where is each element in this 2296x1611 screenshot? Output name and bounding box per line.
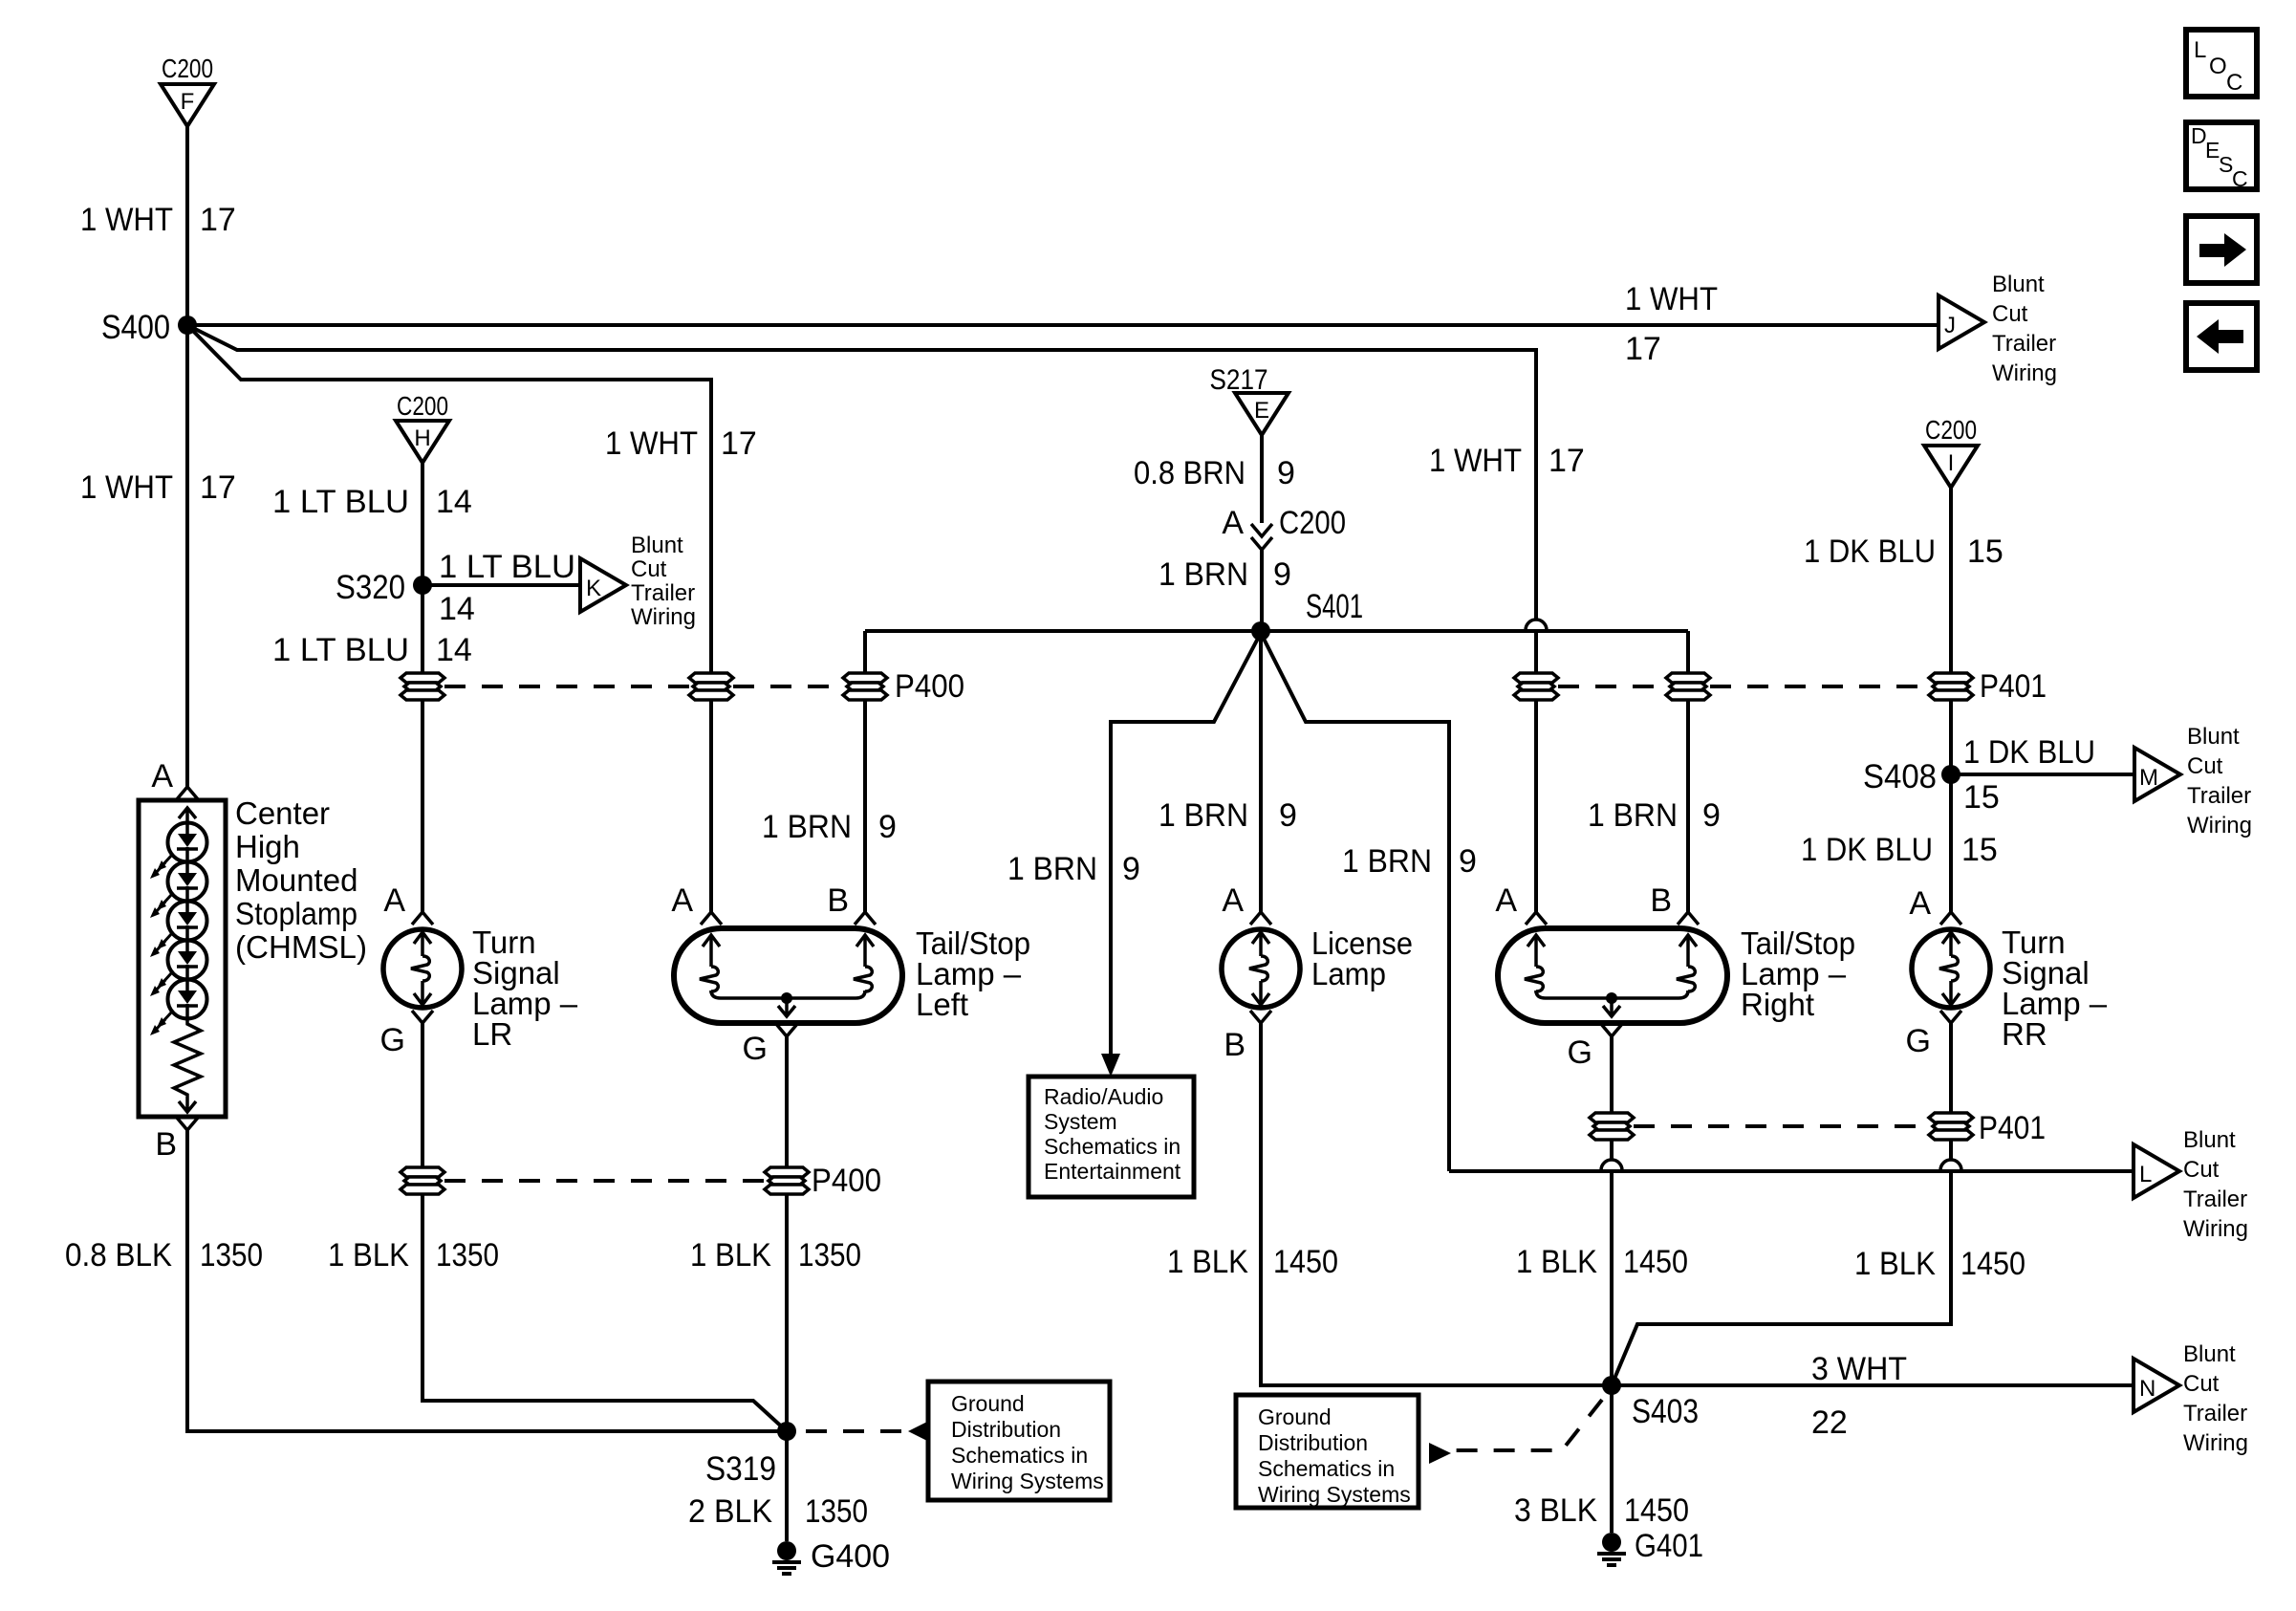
ground G400 [772, 1541, 801, 1574]
dashed harness line P401 top [1558, 685, 1927, 688]
svg-text:1 BRN: 1 BRN [1342, 843, 1432, 880]
svg-text:S400: S400 [101, 309, 170, 346]
wire 1 WHT resumes to connector [1534, 632, 1538, 673]
label 1 BLK 1350 (x442) [328, 1237, 499, 1274]
svg-text:1450: 1450 [1273, 1244, 1338, 1280]
triangle K blunt cut [580, 558, 626, 612]
svg-text:S408: S408 [1863, 758, 1937, 795]
text blunt cut trailer wiring (K) [631, 533, 696, 630]
svg-text:I: I [1948, 450, 1955, 476]
svg-text:17: 17 [1549, 443, 1585, 479]
svg-text:1 DK BLU: 1 DK BLU [1804, 533, 1936, 570]
svg-text:1450: 1450 [1624, 1492, 1689, 1529]
svg-text:C: C [2232, 166, 2248, 191]
pin chevron turn LR A [412, 912, 433, 925]
svg-text:1 DK BLU: 1 DK BLU [1801, 832, 1933, 868]
C200 pass-through marker A [1251, 524, 1272, 550]
CHMSL box [139, 800, 226, 1117]
svg-text:17: 17 [200, 469, 236, 506]
pin chevron turn RR G [1940, 1011, 1961, 1023]
ground distribution box (left) [928, 1382, 1110, 1500]
svg-text:15: 15 [1963, 779, 2000, 816]
svg-text:Wiring: Wiring [1992, 360, 2057, 386]
svg-text:S401: S401 [1306, 588, 1363, 625]
wire S400 down to CHMSL [185, 325, 189, 787]
pin chevron tail right B [1678, 912, 1699, 925]
wire turn LR ground to S319 [422, 1194, 787, 1431]
svg-text:P400: P400 [895, 668, 964, 705]
svg-text:Cut: Cut [631, 556, 667, 582]
svg-text:LR: LR [472, 1016, 512, 1052]
svg-text:17: 17 [721, 425, 757, 462]
svg-text:Schematics in: Schematics in [1258, 1456, 1395, 1481]
svg-text:Schematics in: Schematics in [951, 1443, 1088, 1468]
wire tail left G down [785, 1036, 789, 1167]
svg-text:G400: G400 [811, 1538, 890, 1575]
svg-text:1450: 1450 [1960, 1246, 2025, 1282]
label 1 WHT 17 (x196 lower) [80, 469, 236, 506]
pin chevron tail left G [776, 1024, 797, 1036]
wire turn RR ground to S403 [1612, 1140, 1951, 1385]
wire S401 down to license lamp [1259, 631, 1263, 912]
text blunt cut trailer wiring (J) [1992, 272, 2057, 386]
svg-text:1 BLK: 1 BLK [690, 1237, 771, 1274]
wire P400 to tail left B [863, 700, 867, 912]
svg-text:9: 9 [878, 809, 897, 845]
hop of 1 WHT over 1 BRN bus [1526, 620, 1547, 630]
inline connector P401 top [1929, 673, 1973, 700]
svg-text:C200: C200 [162, 54, 213, 83]
svg-text:9: 9 [1122, 851, 1140, 887]
label 1 BLK 1450 (x1686) [1516, 1244, 1688, 1280]
svg-text:1 BRN: 1 BRN [1159, 556, 1248, 593]
wire S408 down to turn RR [1949, 774, 1953, 912]
svg-text:Radio/Audio: Radio/Audio [1044, 1084, 1163, 1109]
pin chevron CHMSL A [177, 787, 198, 799]
svg-text:1 LT BLU: 1 LT BLU [272, 484, 409, 520]
label 1 WHT 17 (to J) [1625, 281, 1718, 367]
svg-text:(CHMSL): (CHMSL) [235, 929, 367, 965]
svg-text:15: 15 [1967, 533, 2004, 570]
svg-text:C200: C200 [1925, 415, 1977, 445]
label 1 WHT 17 (x744) [605, 425, 757, 462]
CHMSL top arrow [179, 808, 196, 824]
connector triangle H [396, 421, 449, 463]
pin chevron license B [1250, 1011, 1271, 1023]
wire S401 horizontal (1 BRN bus) [865, 629, 1688, 633]
svg-text:B: B [1224, 1027, 1245, 1063]
svg-text:Cut: Cut [1992, 301, 2028, 327]
wire corner down to P400 [863, 631, 867, 673]
svg-text:Left: Left [916, 987, 968, 1022]
label 3 WHT / 22 [1811, 1351, 1907, 1441]
svg-text:Wiring: Wiring [631, 604, 696, 630]
svg-text:K: K [586, 576, 601, 601]
svg-text:2 BLK: 2 BLK [688, 1493, 772, 1530]
wire tail right G down [1610, 1036, 1614, 1113]
svg-text:1 BRN: 1 BRN [1588, 797, 1678, 834]
inline connector P400 [843, 673, 887, 700]
wire H to S320 [421, 463, 424, 585]
wire S320 branch to K [422, 583, 580, 587]
svg-text:1 WHT: 1 WHT [1625, 281, 1718, 317]
splice dot S401 [1251, 621, 1270, 641]
svg-text:9: 9 [1279, 797, 1297, 834]
label 1 BRN 9 (radio feed) [1007, 851, 1140, 887]
wire connector to tail lamp left A [709, 700, 713, 912]
wire connector to turn signal LR [421, 700, 424, 912]
svg-text:1 BRN: 1 BRN [1007, 851, 1097, 887]
svg-text:RR: RR [2002, 1016, 2047, 1052]
inline connector (right lamp A) [1514, 673, 1558, 700]
svg-text:Wiring Systems: Wiring Systems [951, 1469, 1104, 1493]
svg-text:B: B [155, 1126, 177, 1163]
label 1 DK BLU / 15 (M branch) [1963, 734, 2095, 816]
wire license B to S403 [1261, 1023, 1612, 1385]
svg-text:1 DK BLU: 1 DK BLU [1963, 734, 2095, 771]
label 1 BLK 1450 (x2041) [1854, 1246, 2025, 1282]
svg-text:Blunt: Blunt [2183, 1341, 2236, 1367]
ground distribution box (right) [1236, 1395, 1419, 1508]
svg-text:14: 14 [436, 632, 472, 668]
wire S400 branch 2 [187, 325, 1536, 620]
svg-text:9: 9 [1702, 797, 1721, 834]
text turn signal lamp RR [2002, 925, 2108, 1052]
pin chevron license A [1250, 912, 1271, 925]
text blunt cut trailer wiring (L) [2183, 1127, 2248, 1242]
CHMSL bottom arrow [179, 1099, 196, 1112]
wire E down to C200 pass-through [1260, 435, 1264, 523]
pin chevron tail right A [1526, 912, 1547, 925]
wire tail right ground to S403 [1610, 1140, 1614, 1385]
svg-text:L: L [2139, 1162, 2152, 1187]
svg-text:0.8 BRN: 0.8 BRN [1134, 455, 1245, 491]
svg-text:G: G [380, 1022, 405, 1058]
svg-text:Wiring: Wiring [2187, 813, 2252, 838]
wire S403 to G401 [1610, 1385, 1614, 1533]
wire S320 down to connector [421, 585, 424, 673]
svg-text:14: 14 [436, 484, 472, 520]
svg-text:Blunt: Blunt [2183, 1127, 2236, 1153]
text tail stop lamp left [916, 925, 1030, 1022]
label 0.8 BLK 1350 [65, 1237, 263, 1274]
svg-text:S320: S320 [336, 569, 405, 606]
svg-text:Trailer: Trailer [2183, 1186, 2247, 1212]
svg-text:Distribution: Distribution [951, 1417, 1061, 1442]
svg-text:Right: Right [1741, 987, 1814, 1022]
splice dot S408 [1941, 765, 1960, 784]
svg-text:A: A [1222, 505, 1244, 541]
svg-text:Center: Center [235, 795, 330, 831]
svg-text:0.8 BLK: 0.8 BLK [65, 1237, 172, 1274]
wire S400 to J (1 WHT) [187, 323, 1939, 327]
svg-text:1 WHT: 1 WHT [1429, 443, 1522, 479]
triangle N blunt cut [2134, 1359, 2179, 1412]
svg-text:1 WHT: 1 WHT [605, 425, 698, 462]
triangle L blunt cut [2134, 1144, 2179, 1198]
wire CHMSL B down and right to S319 [187, 1130, 787, 1431]
svg-text:9: 9 [1277, 455, 1295, 491]
svg-text:O: O [2209, 54, 2227, 79]
CHMSL LED 1 [150, 823, 207, 880]
svg-text:Cut: Cut [2183, 1157, 2220, 1183]
svg-text:S319: S319 [705, 1450, 776, 1488]
wire P401 to S408 [1949, 700, 1953, 774]
svg-text:1 BRN: 1 BRN [762, 809, 852, 845]
svg-text:9: 9 [1273, 556, 1291, 593]
label 1 BLK 1450 (license) [1167, 1244, 1338, 1280]
label 1 DK BLU 15 (below S408) [1801, 832, 1998, 868]
svg-text:14: 14 [439, 591, 475, 627]
svg-text:B: B [1650, 882, 1672, 919]
svg-text:F: F [181, 89, 195, 115]
triangle M blunt cut [2134, 748, 2180, 801]
label A C200 [1222, 505, 1346, 541]
splice dot S319 [777, 1422, 796, 1441]
text turn signal lamp LR [472, 925, 578, 1052]
wire S319 to G400 [785, 1431, 789, 1541]
dashed harness line P401 bottom [1634, 1124, 1929, 1128]
inline connector (1 WHT left) [689, 673, 733, 700]
pin chevron turn LR G [412, 1011, 433, 1023]
label 2 BLK 1350 [688, 1493, 868, 1530]
ground G401 [1597, 1533, 1626, 1565]
svg-text:1 WHT: 1 WHT [80, 202, 173, 238]
svg-text:P401: P401 [1979, 1110, 2046, 1146]
pin chevron turn RR A [1940, 912, 1961, 925]
svg-text:J: J [1944, 313, 1956, 338]
pin chevron tail left A [701, 912, 722, 925]
svg-text:1 BLK: 1 BLK [1167, 1244, 1248, 1280]
label 1 WHT 17 (x1607) [1429, 443, 1585, 479]
svg-text:1350: 1350 [436, 1237, 499, 1274]
svg-text:A: A [151, 758, 173, 795]
svg-text:Blunt: Blunt [2187, 724, 2240, 750]
svg-text:Blunt: Blunt [1992, 272, 2045, 297]
svg-text:Ground: Ground [1258, 1404, 1332, 1429]
svg-text:Stoplamp: Stoplamp [235, 896, 357, 931]
wire S403 to N (3 WHT) [1612, 1383, 2134, 1387]
triangle J blunt cut [1939, 295, 1984, 349]
connector triangle I [1924, 446, 1978, 488]
wire turn RR G down [1949, 1023, 1953, 1113]
svg-text:A: A [1222, 882, 1244, 919]
svg-text:Mounted: Mounted [235, 862, 357, 898]
text license lamp [1311, 925, 1413, 991]
label 1 BRN 9 (license) [1159, 797, 1297, 834]
svg-text:B: B [827, 882, 849, 919]
pin chevron CHMSL B [177, 1118, 198, 1130]
splice dot S400 [178, 316, 197, 335]
wire F to S400 [185, 126, 189, 325]
svg-text:Distribution: Distribution [1258, 1430, 1368, 1455]
lamp turn signal LR [383, 929, 462, 1008]
dashed reference S403 to ground box [1429, 1400, 1602, 1464]
wire C200 to S401 [1260, 550, 1264, 631]
svg-text:E: E [1254, 398, 1269, 424]
label 1 BRN 9 (x1766) [1588, 797, 1721, 834]
wire connector to tail right B [1686, 700, 1690, 912]
svg-text:System: System [1044, 1109, 1117, 1134]
label 1 BRN 9 (above S401) [1159, 556, 1291, 593]
legend box DESC [2186, 122, 2257, 191]
svg-text:P400: P400 [812, 1163, 881, 1199]
svg-text:High: High [235, 829, 300, 864]
inline connector P400 bottom [765, 1167, 809, 1194]
svg-text:1350: 1350 [798, 1237, 861, 1274]
label 1 LT BLU 14 (above S320) [272, 484, 472, 520]
label 3 BLK 1450 [1514, 1492, 1689, 1529]
inline connector (tail right ground) [1590, 1113, 1634, 1140]
svg-text:A: A [383, 882, 405, 919]
text blunt cut trailer wiring (N) [2183, 1341, 2248, 1456]
svg-text:Trailer: Trailer [2187, 783, 2251, 809]
svg-text:Cut: Cut [2183, 1371, 2220, 1397]
svg-text:1 WHT: 1 WHT [80, 469, 173, 506]
wire I to P401 [1949, 488, 1953, 673]
lamp turn signal RR [1912, 929, 1990, 1008]
svg-text:22: 22 [1811, 1404, 1848, 1441]
svg-text:Trailer: Trailer [631, 580, 695, 606]
CHMSL LED 5 [150, 980, 207, 1036]
svg-text:Cut: Cut [2187, 753, 2223, 779]
inline connector (right lamp B) [1666, 673, 1710, 700]
svg-text:1 BLK: 1 BLK [1854, 1246, 1936, 1282]
svg-text:Trailer: Trailer [1992, 331, 2056, 357]
dashed reference S319 to ground box [806, 1420, 931, 1443]
svg-text:G401: G401 [1635, 1528, 1703, 1564]
svg-text:G: G [1568, 1034, 1592, 1071]
hop of ground wire over L wire (x2041) [1940, 1160, 1961, 1170]
svg-text:Lamp: Lamp [1311, 956, 1386, 991]
connector triangle E [1235, 393, 1289, 435]
svg-text:1 BLK: 1 BLK [1516, 1244, 1597, 1280]
svg-text:3 BLK: 3 BLK [1514, 1492, 1597, 1529]
dashed harness line P400 top [444, 685, 843, 688]
svg-text:1 BLK: 1 BLK [328, 1237, 409, 1274]
inline connector P401 lower [1929, 1113, 1973, 1140]
legend box LOC [2186, 30, 2257, 97]
text tail stop lamp right [1741, 925, 1855, 1022]
svg-text:Trailer: Trailer [2183, 1401, 2247, 1426]
svg-text:17: 17 [1625, 331, 1661, 367]
wire P400 to S319 [785, 1194, 789, 1431]
svg-text:Wiring Systems: Wiring Systems [1258, 1482, 1411, 1507]
svg-text:1350: 1350 [805, 1493, 868, 1530]
svg-text:P401: P401 [1980, 668, 2047, 705]
wire corner down to right lamp B [1686, 631, 1690, 673]
svg-text:Wiring: Wiring [2183, 1430, 2248, 1456]
CHMSL LED 4 [150, 941, 207, 997]
svg-text:S403: S403 [1632, 1393, 1699, 1430]
svg-text:G: G [1906, 1023, 1931, 1059]
wire S401 branch to radio feed [1111, 633, 1261, 1054]
svg-text:L: L [2194, 37, 2206, 63]
wire turn LR G to connector [421, 1023, 424, 1167]
svg-text:1350: 1350 [200, 1237, 263, 1274]
svg-text:A: A [671, 882, 693, 919]
CHMSL LED 2 [150, 862, 207, 919]
hop of ground wire over L wire (x1686) [1601, 1160, 1622, 1170]
svg-text:1450: 1450 [1623, 1244, 1688, 1280]
wire S401 branch to L feed [1261, 633, 1449, 1171]
svg-text:Wiring: Wiring [2183, 1216, 2248, 1242]
svg-text:1 LT BLU: 1 LT BLU [272, 632, 409, 668]
svg-text:A: A [1909, 885, 1931, 922]
splice dot S403 [1602, 1376, 1621, 1395]
legend box arrow left [2186, 303, 2257, 370]
svg-text:15: 15 [1961, 832, 1998, 868]
wire S400 branch 3 [187, 325, 711, 673]
label 1 LT BLU / 14 (K branch) [439, 549, 575, 627]
dashed harness line P400 bottom [444, 1179, 765, 1183]
wire S408 branch to M [1951, 773, 2134, 776]
splice dot S320 [413, 576, 432, 595]
pin chevron tail left B [855, 912, 876, 925]
label 0.8 BRN 9 [1134, 455, 1295, 491]
CHMSL LED 3 [150, 902, 207, 958]
svg-text:C: C [2226, 70, 2242, 96]
inline connector (H wire) [401, 673, 444, 700]
svg-text:M: M [2139, 765, 2158, 791]
svg-text:Ground: Ground [951, 1391, 1025, 1416]
wire L feed horizontal to triangle L [1449, 1169, 2134, 1173]
svg-text:Schematics in: Schematics in [1044, 1134, 1180, 1159]
CHMSL resistor [174, 1018, 201, 1099]
label 1 WHT 17 (F wire) [80, 202, 236, 238]
lamp tail stop right [1498, 928, 1727, 1023]
legend box arrow right [2186, 216, 2257, 283]
svg-text:3 WHT: 3 WHT [1811, 1351, 1907, 1387]
svg-text:Blunt: Blunt [631, 533, 683, 558]
svg-text:A: A [1495, 882, 1517, 919]
svg-text:1 LT BLU: 1 LT BLU [439, 549, 575, 585]
lamp license [1222, 929, 1300, 1008]
svg-text:C200: C200 [397, 391, 448, 421]
wire connector to tail right A [1534, 700, 1538, 912]
label 1 LT BLU 14 (below S320) [272, 632, 472, 668]
svg-text:9: 9 [1459, 843, 1477, 880]
label 1 BLK 1350 (x823) [690, 1237, 861, 1274]
text blunt cut trailer wiring (M) [2187, 724, 2252, 838]
label 1 DK BLU 15 (above P401) [1804, 533, 2004, 570]
svg-text:G: G [743, 1031, 768, 1067]
label 1 BRN 9 (L feed) [1342, 843, 1477, 880]
lamp tail stop left [674, 928, 902, 1023]
inline connector (turn LR ground) [401, 1167, 444, 1194]
svg-text:17: 17 [200, 202, 236, 238]
connector triangle F [161, 84, 214, 126]
pin chevron tail right G [1601, 1024, 1622, 1036]
svg-text:Entertainment: Entertainment [1044, 1159, 1181, 1184]
radio audio reference box [1029, 1077, 1194, 1197]
arrowhead into radio box [1101, 1054, 1120, 1077]
svg-text:H: H [414, 425, 430, 451]
svg-text:1 BRN: 1 BRN [1159, 797, 1248, 834]
svg-text:N: N [2139, 1376, 2155, 1402]
label 1 BRN 9 (x905) [762, 809, 897, 845]
text center high mounted stoplamp [235, 795, 367, 965]
svg-text:C200: C200 [1279, 505, 1346, 541]
